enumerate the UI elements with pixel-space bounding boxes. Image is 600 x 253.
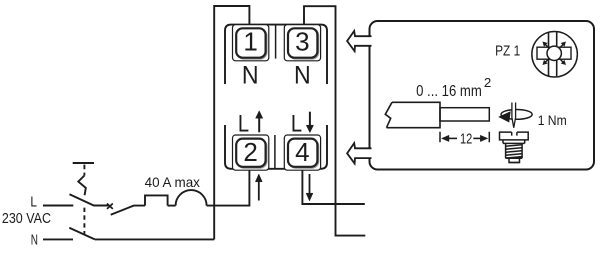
svg-text:N: N [242, 62, 259, 90]
breaker magnetic element (arc hump) [176, 190, 207, 206]
wire: N out from terminal 3 over top to load [304, 6, 365, 235]
wire: L out from terminal 4 to load [302, 170, 364, 204]
wire: L feed to terminal 2 [207, 170, 250, 205]
arrow up (label row, terminal 2) [256, 111, 263, 133]
dimension right arrow [473, 135, 488, 141]
svg-text:40 A max: 40 A max [145, 174, 200, 190]
wire: L supply lead [43, 205, 73, 207]
inset cable sheath [385, 102, 440, 127]
svg-text:PZ 1: PZ 1 [495, 44, 520, 60]
arrow: current down out of terminal 4 [306, 174, 313, 201]
switch linkage dashed lower [83, 208, 85, 234]
switch linkage zigzag [78, 176, 86, 196]
breaker blade [111, 206, 145, 215]
device outline: top terminal block [225, 25, 327, 84]
terminal 3 [284, 25, 320, 61]
svg-text:L: L [30, 194, 37, 210]
svg-text:4: 4 [295, 137, 309, 167]
svg-text:1 Nm: 1 Nm [538, 113, 567, 128]
inset torque rotation ellipse [501, 110, 532, 120]
inset terminal screw [500, 132, 529, 162]
svg-text:L: L [238, 111, 249, 138]
switch pole N blade [69, 228, 95, 240]
dimension left arrow [442, 135, 458, 141]
svg-text:1: 1 [243, 27, 257, 57]
breaker overload element (rect bump) [145, 195, 168, 205]
wire: N to riser [95, 238, 214, 240]
arrow down (label row, terminal 4) [306, 112, 313, 133]
svg-text:230 VAC: 230 VAC [2, 211, 51, 227]
inset detail box [370, 21, 595, 170]
svg-text:12: 12 [460, 132, 472, 148]
inset cable stripped conductor [440, 108, 489, 121]
terminal 1 [233, 25, 269, 61]
inset torque arrowhead [498, 111, 511, 122]
svg-text:N: N [294, 62, 311, 90]
terminal 4 [284, 135, 320, 170]
arrow: current up into terminal 2 [255, 174, 262, 201]
switch linkage dashed upper [83, 165, 85, 176]
wire: N riser over top to terminal 1 [214, 6, 249, 239]
device outline: bottom terminal block [225, 125, 327, 169]
svg-text:3: 3 [295, 27, 309, 57]
contact marker x [107, 204, 113, 209]
inset arrow to terminal row 2/4 [347, 143, 371, 163]
divider between terminals 2 and 4 [274, 135, 276, 169]
switch actuator bar [73, 162, 94, 164]
wire: N supply lead [43, 238, 73, 240]
terminal 2 [233, 135, 269, 170]
inset arrow to terminal row 1/3 [347, 31, 371, 51]
switch pole L blade [70, 194, 109, 205]
svg-text:2: 2 [484, 75, 491, 90]
inset screwdriver blade [512, 103, 516, 128]
svg-text:0 ... 16 mm: 0 ... 16 mm [416, 83, 482, 100]
svg-text:2: 2 [243, 137, 257, 167]
inset pozidriv screw head icon [532, 31, 578, 76]
svg-text:L: L [291, 111, 302, 138]
divider between terminals 1 and 3 [275, 25, 277, 59]
svg-text:N: N [31, 232, 38, 248]
dimension 12 mm ticks [440, 132, 489, 143]
breaker wire segment [168, 205, 176, 207]
